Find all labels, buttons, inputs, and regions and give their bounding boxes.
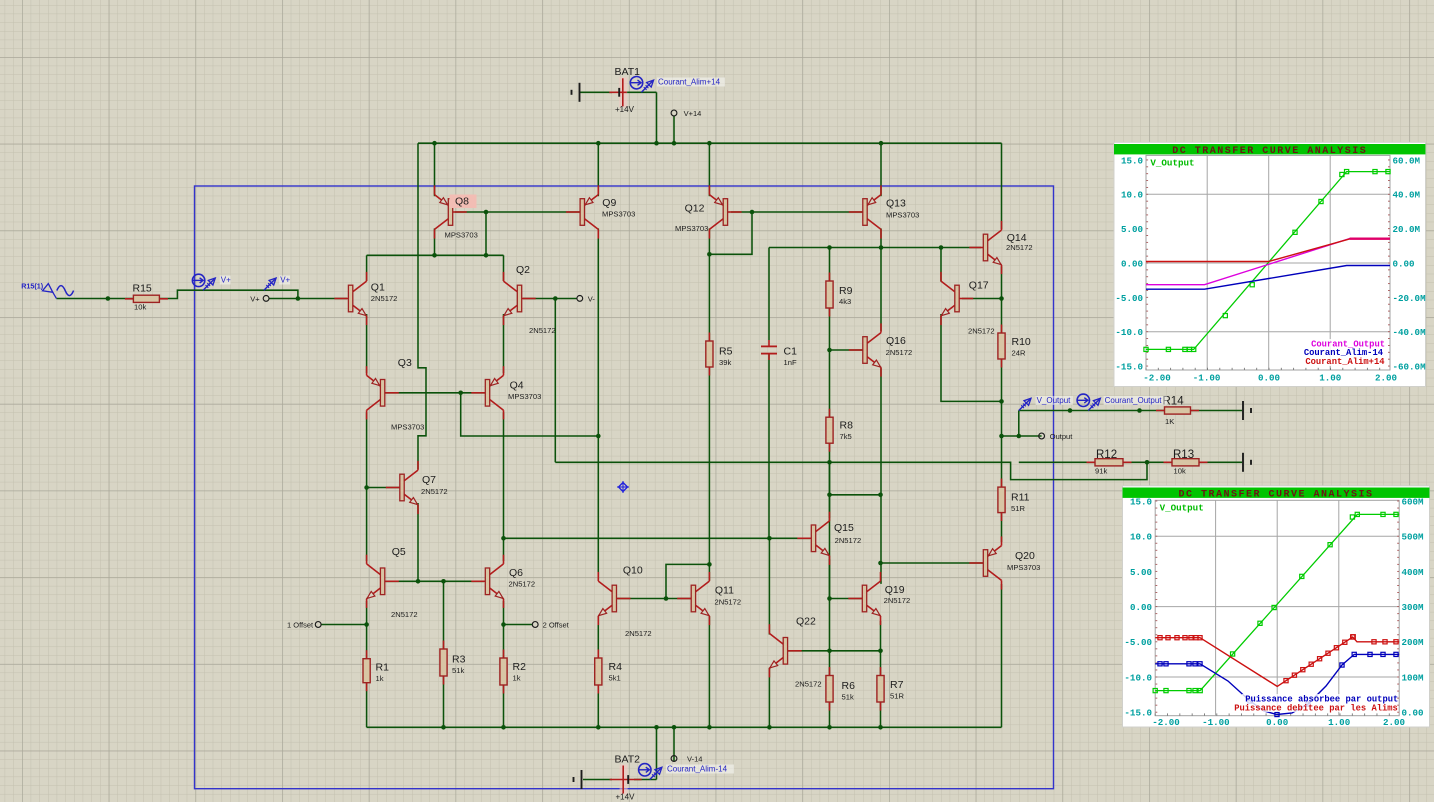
capacitor C1	[768, 340, 770, 346]
wire BAT1 to elbow	[626, 91, 657, 93]
wire Q2 base to V- terminal	[523, 298, 577, 300]
wire BAT2 to elbow	[634, 779, 657, 781]
resistor R15	[125, 298, 168, 300]
wire Q15 emitter to R6	[829, 559, 831, 651]
svg-text:Q10: Q10	[623, 565, 643, 577]
transistor Q22	[788, 650, 802, 652]
junction	[596, 434, 601, 439]
wire Q12-Q13 bases	[731, 211, 863, 213]
junction	[999, 296, 1004, 301]
wire Q1/Q2 collectors tie	[367, 254, 504, 256]
svg-text:-10.0: -10.0	[1115, 327, 1143, 338]
svg-text:10.0: 10.0	[1130, 532, 1152, 543]
svg-text:2N5172: 2N5172	[625, 629, 652, 638]
wire C1 bottom to mirror node	[768, 354, 770, 538]
wire BAT2 to rail	[656, 727, 658, 779]
junction	[878, 649, 883, 654]
svg-text:2N5172: 2N5172	[835, 536, 862, 545]
wire R8 node down	[829, 462, 831, 598]
junction	[878, 561, 883, 566]
wire Q2 collector up	[503, 255, 505, 281]
wire Q17 emitter to output	[941, 314, 1002, 401]
resistor R13	[1164, 461, 1208, 463]
wire +14V top rail	[418, 142, 1002, 144]
svg-text:-5.00: -5.00	[1124, 637, 1152, 648]
junction	[501, 622, 506, 627]
transistor Q4	[471, 392, 485, 394]
junction	[879, 245, 884, 250]
svg-text:100M: 100M	[1402, 672, 1425, 683]
svg-text:V+: V+	[221, 276, 231, 285]
wire R6 top lead	[829, 651, 831, 676]
svg-text:20.0M: 20.0M	[1393, 224, 1421, 235]
svg-text:-2.00: -2.00	[1152, 717, 1180, 728]
svg-text:2N5172: 2N5172	[371, 294, 398, 303]
svg-text:-15.0: -15.0	[1115, 361, 1143, 372]
svg-text:2N5172: 2N5172	[884, 596, 911, 605]
wire ground to BAT1	[580, 91, 612, 93]
svg-text:Q2: Q2	[516, 264, 530, 276]
svg-text:10k: 10k	[134, 303, 146, 312]
wire Q13 collector row	[769, 247, 981, 249]
resistor R14	[1156, 410, 1199, 412]
terminal V- input	[577, 296, 583, 302]
svg-text:1 Offset: 1 Offset	[287, 620, 314, 629]
wire to Q17 collector	[940, 248, 942, 282]
svg-text:200M: 200M	[1402, 637, 1425, 648]
svg-text:0.00: 0.00	[1121, 258, 1143, 269]
current probe Courant_Alim-14	[639, 764, 651, 776]
wire rail to Q14 collector	[1001, 143, 1003, 229]
svg-text:-1.00: -1.00	[1193, 373, 1221, 384]
resistor R4	[597, 650, 599, 694]
battery BAT2	[620, 765, 628, 795]
wire Q8 base down	[485, 212, 487, 255]
svg-text:Q13: Q13	[886, 198, 906, 210]
junction	[106, 296, 111, 301]
junction	[767, 725, 772, 730]
svg-text:R15(1): R15(1)	[21, 281, 44, 290]
wire output terminal stub	[1002, 435, 1042, 437]
svg-text:2N5172: 2N5172	[968, 327, 995, 336]
svg-text:Q5: Q5	[392, 546, 406, 558]
svg-text:4k3: 4k3	[839, 297, 851, 306]
svg-text:2N5172: 2N5172	[715, 598, 742, 607]
resistor R6	[829, 667, 831, 711]
resistor R5	[708, 333, 710, 376]
svg-text:40.0M: 40.0M	[1393, 190, 1421, 201]
junction	[596, 725, 601, 730]
ground at BAT1	[579, 83, 581, 102]
wire Q19 emitter to R7	[880, 621, 882, 676]
transistor Q3	[385, 392, 399, 394]
terminal V+14	[671, 110, 677, 116]
wire to R10 top	[1001, 299, 1003, 335]
probe marker input current	[203, 279, 214, 290]
svg-text:V+14: V+14	[684, 109, 702, 118]
transistor Q8	[453, 211, 467, 213]
svg-text:MPS3703: MPS3703	[1007, 563, 1040, 572]
svg-text:2N5172: 2N5172	[509, 579, 536, 588]
svg-text:R2: R2	[513, 661, 527, 673]
svg-text:BAT2: BAT2	[615, 753, 641, 765]
wire Q13 collector down	[880, 228, 882, 247]
junction	[553, 296, 558, 301]
resistor R10	[1001, 325, 1003, 368]
svg-text:1nF: 1nF	[784, 358, 797, 367]
wire Q10-Q11 bases	[617, 598, 692, 600]
wire Q13 emitter to rail	[880, 143, 882, 196]
svg-text:51R: 51R	[1011, 504, 1025, 513]
transistor Q11	[677, 598, 691, 600]
junction	[827, 725, 832, 730]
svg-text:V-14: V-14	[687, 754, 702, 763]
wire C1 top	[768, 248, 770, 341]
wire Q1 emitter to Q3 emitter	[366, 314, 368, 373]
wire Q10 emitter to R4	[597, 616, 599, 660]
junction	[654, 141, 659, 146]
svg-text:R5: R5	[719, 346, 733, 358]
svg-text:7k5: 7k5	[840, 432, 852, 441]
svg-text:10.0: 10.0	[1121, 190, 1143, 201]
wire Q5 emitter to R1	[366, 601, 368, 660]
wire Q4 collector down	[503, 412, 505, 561]
wire V+ terminal stub	[269, 298, 298, 300]
wire -14V bottom rail	[367, 726, 1002, 728]
wire R9 top	[829, 248, 831, 283]
junction	[364, 622, 369, 627]
wire Q16 base	[830, 349, 864, 351]
terminal V+ input	[263, 296, 269, 302]
svg-text:500M: 500M	[1402, 532, 1425, 543]
transistor Q10	[617, 598, 631, 600]
wire output up	[1018, 411, 1020, 437]
svg-text:10k: 10k	[1174, 467, 1186, 476]
wire R10 to R11 output node	[1001, 358, 1003, 488]
svg-text:600M: 600M	[1402, 496, 1425, 507]
svg-text:Q19: Q19	[885, 584, 905, 596]
svg-text:MPS3703: MPS3703	[675, 224, 708, 233]
junction	[501, 725, 506, 730]
svg-text:Q20: Q20	[1015, 550, 1035, 562]
junction	[827, 596, 832, 601]
svg-text:5.00: 5.00	[1130, 567, 1152, 578]
junction	[767, 536, 772, 541]
svg-text:V_Output: V_Output	[1150, 158, 1194, 169]
wire output to R12	[1019, 461, 1095, 463]
transistor Q14	[969, 247, 983, 249]
junction	[432, 141, 437, 146]
junction	[1068, 408, 1073, 413]
battery BAT1	[619, 77, 627, 107]
svg-text:R8: R8	[840, 420, 854, 432]
junction	[999, 434, 1004, 439]
svg-text:-15.0: -15.0	[1124, 708, 1152, 719]
svg-text:400M: 400M	[1402, 567, 1425, 578]
junction	[672, 141, 677, 146]
svg-text:2.00: 2.00	[1375, 373, 1397, 384]
wire Q1 collector up	[366, 255, 368, 281]
svg-text:Courant_Alim+14: Courant_Alim+14	[1305, 357, 1385, 367]
junction	[827, 649, 832, 654]
junction	[364, 485, 369, 490]
wire Q2 emitter to Q4 emitter	[503, 314, 505, 373]
wire Q7 base	[367, 487, 404, 489]
wire Q9 collector to Q10 collector	[597, 228, 599, 579]
current probe input	[192, 274, 204, 286]
svg-text:R13: R13	[1173, 449, 1194, 461]
svg-text:1k: 1k	[513, 674, 521, 683]
svg-text:R7: R7	[890, 679, 904, 691]
wire Q20 collector to rail	[1001, 584, 1003, 727]
junction	[827, 460, 832, 465]
wire V-14 terminal to rail	[673, 727, 675, 761]
wire R6 bottom	[829, 702, 831, 727]
svg-text:1k: 1k	[376, 674, 384, 683]
svg-text:R6: R6	[842, 680, 856, 692]
wire Q6 collector to Q15 base	[504, 537, 811, 539]
svg-text:Q15: Q15	[834, 522, 854, 534]
wire Q17 base	[962, 298, 1002, 300]
wire R5 top	[708, 254, 710, 342]
svg-text:Q3: Q3	[398, 357, 412, 369]
junction	[707, 562, 712, 567]
junction	[1137, 408, 1142, 413]
resistor R12	[1087, 461, 1132, 463]
wire R3 bottom	[443, 676, 445, 727]
junction	[458, 391, 463, 396]
wire V+14 terminal to rail	[673, 116, 675, 143]
svg-text:V+: V+	[250, 295, 260, 304]
wire Q12 collector down	[708, 228, 710, 254]
junction	[484, 210, 489, 215]
voltage probe V_Output	[1019, 400, 1030, 411]
current probe Courant_Output	[1077, 394, 1089, 406]
svg-text:Q7: Q7	[422, 474, 436, 486]
svg-text:0.00: 0.00	[1393, 258, 1415, 269]
sheet border	[195, 186, 1054, 789]
transistor Q7	[386, 487, 400, 489]
resistor R7	[880, 667, 882, 711]
svg-text:15.0: 15.0	[1130, 496, 1152, 507]
svg-text:2N5172: 2N5172	[421, 487, 448, 496]
probe marker Courant_Output	[1088, 400, 1099, 411]
transistor Q13	[849, 211, 863, 213]
junction	[999, 399, 1004, 404]
svg-text:Q9: Q9	[602, 197, 616, 209]
junction	[878, 493, 883, 498]
svg-text:+14V: +14V	[616, 792, 636, 801]
svg-text:51R: 51R	[890, 692, 904, 701]
origin marker	[619, 483, 628, 492]
wire R4 bottom	[597, 685, 599, 727]
probe marker Courant_Alim-14	[650, 769, 661, 780]
svg-text:Courant_Output: Courant_Output	[1105, 396, 1163, 405]
svg-text:R3: R3	[452, 654, 466, 666]
resistor R9	[829, 273, 831, 317]
wire R3 top	[443, 581, 445, 650]
transistor Q19	[848, 598, 862, 600]
svg-text:R9: R9	[839, 285, 853, 297]
svg-text:-60.0M: -60.0M	[1393, 361, 1427, 372]
svg-text:2N5172: 2N5172	[886, 348, 913, 357]
wire Q12 emitter to rail	[708, 143, 710, 196]
svg-text:R15: R15	[133, 283, 152, 295]
junction	[416, 579, 421, 584]
svg-text:C1: C1	[784, 346, 798, 358]
wire feedback V- down	[554, 299, 556, 463]
svg-text:MPS3703: MPS3703	[391, 423, 424, 432]
wire Q22 emitter down	[768, 668, 770, 728]
svg-text:Q16: Q16	[886, 335, 906, 347]
junction	[707, 252, 712, 257]
wire Q14 emitter to Q17 base	[1001, 266, 1003, 298]
svg-text:2N5172: 2N5172	[795, 680, 822, 689]
current probe Courant_Alim+14	[630, 77, 642, 89]
terminal V-14	[671, 756, 677, 762]
wire R13 to ground	[1199, 461, 1242, 463]
junction	[296, 296, 301, 301]
wire bases to Q9 collector	[461, 393, 599, 436]
svg-text:Q12: Q12	[685, 203, 705, 215]
junction	[441, 725, 446, 730]
wire mirror base jog	[666, 564, 709, 598]
resistor R8	[829, 409, 831, 452]
junction	[1145, 460, 1150, 465]
ground at R14	[1242, 401, 1244, 420]
wire 1 Offset stub	[321, 624, 367, 626]
wire Q8-Q9 bases	[455, 211, 581, 213]
junction	[441, 579, 446, 584]
wire Q15 col to Q19 col	[830, 494, 881, 496]
svg-text:Q4: Q4	[510, 380, 524, 392]
wire Q11 emitter down	[708, 616, 710, 727]
svg-text:Q6: Q6	[509, 567, 523, 579]
junction	[484, 253, 489, 258]
resistor R2	[503, 650, 505, 694]
wire Q9 emitter to rail	[597, 143, 599, 196]
svg-text:-1.00: -1.00	[1202, 717, 1230, 728]
transistor Q9	[566, 211, 580, 213]
ground at R13	[1242, 453, 1244, 472]
wire R7 bottom	[880, 702, 882, 727]
wire to Q16 collector	[880, 248, 882, 332]
wire R1 bottom	[366, 683, 368, 728]
transistor Q17	[959, 298, 973, 300]
svg-text:-5.00: -5.00	[1115, 293, 1143, 304]
wire output to R14	[1019, 410, 1164, 412]
svg-text:2N5172: 2N5172	[529, 326, 556, 335]
wire Q20 base	[881, 562, 985, 564]
transistor Q6	[471, 580, 485, 582]
graph DC transfer curve analysis 1	[1114, 142, 1426, 386]
svg-text:2 Offset: 2 Offset	[543, 621, 570, 630]
wire to Q15 collector	[829, 495, 831, 518]
terminal 1 Offset	[315, 622, 321, 628]
svg-text:-10.0: -10.0	[1124, 672, 1152, 683]
wire feedback to divider	[555, 462, 1147, 479]
svg-text:R11: R11	[1011, 492, 1030, 504]
terminal Output	[1039, 433, 1045, 439]
svg-text:5.00: 5.00	[1121, 224, 1143, 235]
svg-text:5k1: 5k1	[609, 674, 621, 683]
svg-text:15.0: 15.0	[1121, 155, 1143, 166]
junction	[501, 536, 506, 541]
svg-text:-20.0M: -20.0M	[1393, 293, 1427, 304]
junction	[432, 253, 437, 258]
wire Q11 collector up	[708, 564, 710, 580]
svg-text:R1: R1	[376, 662, 390, 674]
ground at BAT2	[581, 770, 583, 789]
wire Q3 collector down	[366, 412, 368, 561]
wire rail to Q7 collector with jog	[418, 143, 426, 469]
svg-text:MPS3703: MPS3703	[445, 231, 478, 240]
transistor Q20	[969, 562, 983, 564]
svg-text:V+: V+	[280, 276, 290, 285]
resistor R11	[1001, 479, 1003, 522]
transistor Q5	[385, 580, 399, 582]
wire BAT1 to rail	[656, 92, 658, 143]
wire R9 to R8	[829, 307, 831, 418]
junction	[939, 245, 944, 250]
svg-text:DC TRANSFER CURVE ANALYSIS: DC TRANSFER CURVE ANALYSIS	[1178, 490, 1373, 501]
svg-text:-2.00: -2.00	[1143, 373, 1171, 384]
resistor R3	[443, 641, 445, 685]
probe marker Courant_Alim+14	[641, 81, 652, 92]
svg-text:1.00: 1.00	[1328, 717, 1350, 728]
junction	[750, 210, 755, 215]
svg-text:Q11: Q11	[715, 585, 734, 597]
junction	[707, 141, 712, 146]
svg-text:MPS3703: MPS3703	[886, 211, 919, 220]
junction	[827, 245, 832, 250]
transistor Q1	[334, 298, 348, 300]
svg-text:Output: Output	[1050, 432, 1073, 441]
svg-text:R10: R10	[1012, 336, 1031, 348]
svg-text:91k: 91k	[1095, 467, 1107, 476]
svg-text:MPS3703: MPS3703	[602, 210, 635, 219]
svg-text:MPS3703: MPS3703	[508, 392, 541, 401]
transistor Q12	[728, 211, 742, 213]
terminal 2 Offset	[532, 622, 538, 628]
resistor R1	[366, 650, 368, 691]
generator R15(1)	[43, 284, 53, 293]
wire 2 Offset stub	[504, 624, 533, 626]
svg-text:R12: R12	[1096, 449, 1117, 461]
svg-text:51k: 51k	[842, 693, 854, 702]
svg-text:V_Output: V_Output	[1037, 396, 1072, 405]
transistor Q15	[797, 537, 811, 539]
wire Q19 base	[830, 598, 865, 600]
svg-text:Q17: Q17	[969, 280, 989, 292]
wire R5 bottom to mirror	[708, 366, 710, 564]
junction	[1017, 434, 1022, 439]
svg-text:2.00: 2.00	[1383, 717, 1405, 728]
svg-text:60.0M: 60.0M	[1393, 155, 1421, 166]
graph DC transfer curve analysis 2	[1123, 486, 1430, 727]
junction	[654, 725, 659, 730]
svg-text:1.00: 1.00	[1319, 373, 1341, 384]
svg-text:2N5172: 2N5172	[391, 610, 418, 619]
junction	[596, 141, 601, 146]
svg-text:Courant_Alim-14: Courant_Alim-14	[667, 765, 728, 774]
wire Q5-Q6 bases	[386, 580, 485, 582]
svg-text:0.00: 0.00	[1130, 602, 1152, 613]
wire Q6 emitter to R2	[503, 601, 505, 660]
svg-text:R4: R4	[609, 661, 623, 673]
svg-text:24R: 24R	[1012, 349, 1026, 358]
junction	[827, 493, 832, 498]
